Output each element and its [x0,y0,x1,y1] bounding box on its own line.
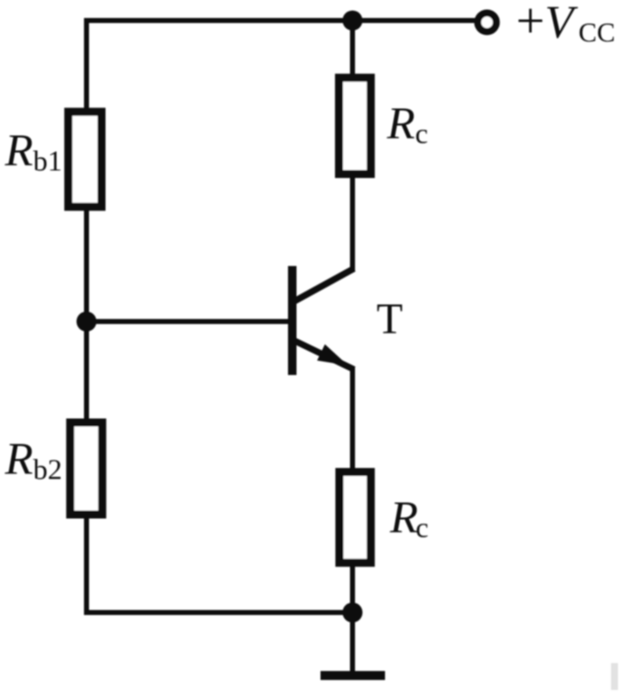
transistor T emitter arrow [317,344,348,365]
node bottom junction [343,603,363,623]
ground stem [350,613,355,673]
transistor T base bar [288,266,297,375]
resistor Rc emitter [339,472,370,563]
ground bar [321,671,386,680]
wire bottom horizontal rail [84,610,353,615]
svg-text:Rc: Rc [389,492,428,545]
resistor Rb1 [68,112,101,207]
node base junction [77,312,97,332]
wire top horizontal rail [84,18,475,23]
svg-text:+VCC: +VCC [516,0,615,50]
wire left vertical rail [84,18,89,613]
svg-text:Rc: Rc [386,98,428,151]
svg-text:Rb2: Rb2 [4,433,62,486]
transistor T emitter stroke [293,340,354,370]
wire collector branch vertical (top rail to Rc to transistor) [350,21,355,271]
wire emitter branch vertical (transistor to Rc to bottom rail) [350,367,355,613]
transistor T collector stroke [293,269,354,303]
wire base horizontal [87,319,291,324]
terminal +Vcc [478,13,497,32]
svg-text:Rb1: Rb1 [4,125,62,178]
node top junction [343,11,363,31]
resistor Rb2 [70,423,102,515]
resistor Rc collector [339,78,371,174]
svg-text:T: T [377,296,403,343]
stray faint mark bottom-right edge [611,663,618,690]
